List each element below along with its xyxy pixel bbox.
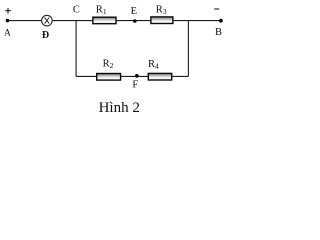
wire R2 to R4 <box>121 75 149 77</box>
node A <box>6 19 10 23</box>
resistor R1 <box>93 17 116 24</box>
wire right vertical branch <box>187 21 189 77</box>
svg-text:Hình 2: Hình 2 <box>99 100 140 116</box>
svg-text:F: F <box>132 80 138 91</box>
node B <box>219 19 223 23</box>
resistor R3 <box>151 17 173 24</box>
wire left vertical branch <box>75 21 77 77</box>
plus terminal mark <box>5 8 11 14</box>
wire A to lamp <box>8 20 42 22</box>
svg-text:A: A <box>4 29 11 39</box>
svg-text:R2: R2 <box>103 59 114 71</box>
lamp D <box>42 15 53 26</box>
svg-text:C: C <box>73 5 80 16</box>
resistor R4 <box>148 73 171 80</box>
node F <box>135 74 139 78</box>
wire R3 to B <box>173 20 221 22</box>
svg-text:Đ: Đ <box>42 30 49 41</box>
node E <box>133 19 137 23</box>
resistor R2 <box>97 74 121 81</box>
svg-text:R4: R4 <box>148 59 159 71</box>
wire R1 to R3 <box>117 20 151 22</box>
svg-text:R1: R1 <box>96 5 107 17</box>
svg-text:B: B <box>215 27 222 38</box>
wire R4 to right branch <box>172 75 188 77</box>
svg-text:E: E <box>131 6 137 17</box>
minus terminal mark <box>214 8 219 10</box>
wire lamp to R1 <box>52 20 92 22</box>
svg-text:R3: R3 <box>156 4 167 16</box>
wire bottom left <box>76 75 96 77</box>
